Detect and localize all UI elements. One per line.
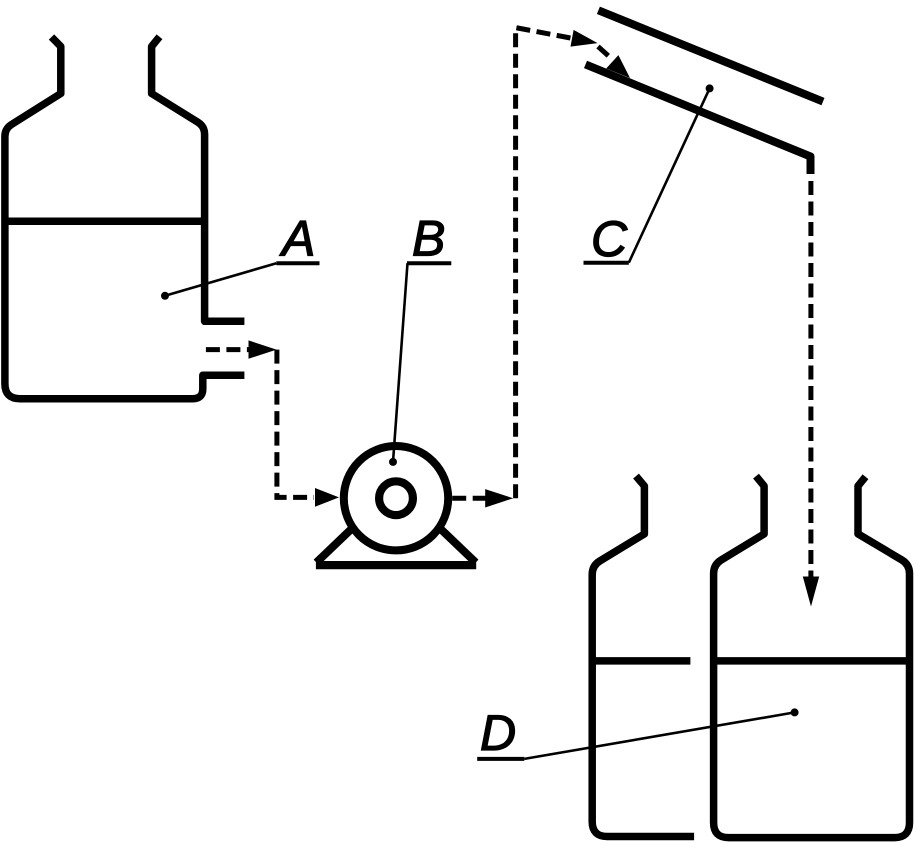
node dot B: [389, 458, 397, 466]
tank A outline left/bottom/outlet-lower-lip: [5, 37, 245, 399]
svg-text:B: B: [412, 211, 445, 267]
leader line D: [524, 712, 794, 759]
pump B inner circle: [379, 481, 413, 515]
wire dashed pipe tank A outlet horizontal: [206, 347, 250, 352]
bottle D front liquid level line: [711, 657, 912, 665]
node dot A: [161, 292, 169, 300]
chute C lower plate with end lip: [586, 64, 811, 174]
wire dashed pipe down then right to pump: [277, 350, 314, 498]
leader line B: [393, 263, 408, 462]
label D underline: [477, 757, 524, 761]
pump B stand legs: [316, 492, 475, 563]
svg-text:C: C: [591, 211, 628, 267]
pump B outer circle: [344, 446, 448, 550]
label A underline: [276, 261, 319, 265]
arrowhead into pump B: [315, 488, 339, 507]
arrowhead into bottle D: [803, 577, 819, 607]
arrowhead onto chute surface: [606, 55, 630, 78]
wire dashed pipe pump outlet horizontal: [452, 496, 487, 501]
node dot D: [791, 708, 799, 716]
bottle D back liquid level line: [590, 657, 690, 665]
pump B stand base: [316, 561, 476, 569]
bottle D front outline: [714, 476, 910, 837]
label B underline: [407, 261, 451, 265]
tank A outline right/outlet-upper-lip: [152, 37, 245, 322]
wire dashed pipe chute down to bottle D: [808, 181, 813, 577]
bottle D back outline: [592, 476, 694, 836]
leader line A: [165, 263, 276, 296]
arrowhead pump outlet to corner: [485, 489, 513, 507]
arrowhead onto chute upper: [571, 30, 598, 47]
svg-text:D: D: [480, 705, 516, 761]
node dot C: [706, 84, 714, 92]
tank A liquid level line: [3, 217, 208, 225]
leader line C: [629, 88, 710, 262]
arrowhead pipe A to corner: [249, 340, 277, 358]
chute C upper plate: [598, 10, 823, 101]
wire dashed pipe riser up and over to chute: [516, 28, 572, 499]
svg-text:A: A: [279, 211, 315, 267]
label C underline: [584, 261, 629, 265]
wire dashed short drop to chute: [598, 47, 608, 56]
